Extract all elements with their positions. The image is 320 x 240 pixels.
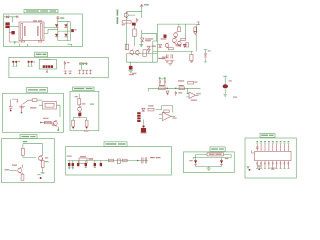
capacitor C10 <box>68 161 70 169</box>
capacitor C24 <box>190 52 193 61</box>
label audio J <box>158 58 165 59</box>
wire bridge rails <box>58 22 71 41</box>
wire VCC drop <box>20 20 72 46</box>
frame E title box <box>20 135 37 139</box>
frame E <box>2 139 55 183</box>
label R26 <box>178 80 184 81</box>
ground G <box>206 168 211 170</box>
capacitor C16 pair <box>142 157 147 163</box>
frame C <box>3 93 64 132</box>
capacitor C18 polarized <box>132 23 136 26</box>
resistor R9 <box>72 120 75 128</box>
frame H <box>245 138 296 178</box>
wire reg out <box>142 30 157 46</box>
wire bottom return <box>9 41 22 44</box>
resistor R18 <box>122 21 132 26</box>
capacitor C15 <box>100 161 102 167</box>
frame B title box <box>35 52 48 57</box>
transistor Q3 <box>53 120 58 129</box>
diode D11 <box>159 44 162 47</box>
electret mic MK1 <box>140 125 146 133</box>
frame D title box <box>73 87 94 91</box>
transistor Q12 <box>177 41 181 47</box>
frame B <box>9 57 108 77</box>
supply mark top left H <box>256 146 259 149</box>
wire bias loop <box>23 144 43 158</box>
diode top right J <box>197 22 200 25</box>
audio bus wire K <box>149 88 201 91</box>
net label green <box>90 104 94 105</box>
ground H bottom left green <box>257 166 261 170</box>
capacitor C8 polarized <box>78 113 81 117</box>
main audio rail wire <box>68 160 149 162</box>
resistor R15 <box>108 159 113 162</box>
resistor R8 vertical <box>78 94 81 105</box>
resistor R24 <box>168 48 173 50</box>
header JP2 pins <box>79 62 87 70</box>
speaker SP1 stub <box>203 50 210 63</box>
battery BT1 <box>223 76 232 97</box>
junction dots K <box>167 88 177 90</box>
inductor L1 box <box>79 156 87 163</box>
diode D9 <box>141 38 144 42</box>
frame G title box <box>210 147 225 152</box>
supply symbol VCC+ <box>56 16 64 20</box>
transistor Q13 <box>165 43 169 48</box>
ground H center red <box>270 168 276 169</box>
diode D7 <box>194 160 197 166</box>
frame F title box <box>104 142 127 147</box>
supply arrow VCC I <box>140 4 149 7</box>
pin1 wire left H <box>252 150 255 153</box>
input net label <box>5 169 17 170</box>
component right rail <box>194 27 197 35</box>
junction dot F <box>137 160 139 162</box>
connector X1 pin2 <box>5 25 9 28</box>
resistor R25 <box>176 44 181 46</box>
IC U2 top pins <box>256 141 289 151</box>
capacitor C13 <box>85 161 87 168</box>
DIP switch SW1 <box>39 59 56 73</box>
resistor R23 <box>186 43 189 47</box>
capacitor C20 <box>125 44 128 50</box>
capacitor C7 <box>19 105 25 114</box>
resistor R16 <box>123 159 128 162</box>
capacitor C14 <box>94 161 96 168</box>
transistor Q6 <box>18 165 23 174</box>
wire G center <box>196 167 222 169</box>
diode pair D10 <box>147 46 150 53</box>
label mid <box>152 46 156 47</box>
diode D3 <box>55 34 58 37</box>
header X2 <box>137 112 140 122</box>
relay K1 <box>39 102 60 118</box>
transistor Q5 <box>38 155 42 161</box>
capacitor C25 <box>175 91 177 96</box>
LED pair LED1 LED2 <box>12 61 20 66</box>
capacitor C1 polarized <box>71 29 76 32</box>
connector X1 pin1 <box>5 22 9 25</box>
trimmer R27 <box>188 81 198 84</box>
capacitor C22 polarized mid <box>129 66 133 70</box>
wire splitter <box>73 116 86 120</box>
caps ground cluster J <box>165 54 174 65</box>
transistor Q9 <box>135 50 139 56</box>
ground symbols E <box>37 168 45 180</box>
frame F <box>66 147 172 176</box>
diode D4 <box>64 34 67 37</box>
diode D2 <box>64 24 67 27</box>
frame H title box <box>260 134 275 138</box>
feedback loop K2 <box>156 106 173 113</box>
label Q6 <box>12 165 17 166</box>
label U1A <box>191 100 197 101</box>
ground H left <box>246 167 250 171</box>
header JP2 contacts <box>78 70 91 74</box>
label audio out <box>150 157 161 158</box>
diode D5 <box>17 16 19 18</box>
label out red <box>162 57 167 60</box>
capacitor C6 <box>9 104 13 112</box>
label top left K <box>132 73 137 74</box>
capacitor C21 <box>143 50 146 57</box>
capacitor C19 <box>133 29 137 46</box>
capacitor C23 polarized <box>161 35 167 40</box>
ground mid bottom <box>128 70 134 75</box>
wire mic drop <box>143 119 145 124</box>
frame C title box <box>27 88 48 93</box>
label C7 <box>30 107 37 108</box>
IC U2 body <box>255 151 291 160</box>
resistor R6 <box>45 121 52 124</box>
diode D15 <box>142 108 145 111</box>
transistor Q10 <box>174 32 178 38</box>
LED pair LED3 LED4 <box>28 61 35 66</box>
wire bracket red <box>12 99 18 102</box>
label F left <box>67 156 72 157</box>
resistor R30 <box>148 105 154 111</box>
resistor R12 <box>41 157 48 167</box>
wire phase red <box>8 28 10 42</box>
op-amp U1B <box>159 112 177 120</box>
wire G loop <box>193 155 231 161</box>
transistor Q7 <box>124 12 128 18</box>
transistor Q8 <box>130 50 134 56</box>
label K1 <box>178 92 182 93</box>
wire top input net <box>4 17 17 23</box>
op-amp U1A <box>186 92 200 98</box>
transistor Q4 <box>78 106 82 112</box>
resistor R11 <box>21 148 24 155</box>
resistor R22 <box>181 38 186 40</box>
wire diagonal base <box>23 100 33 104</box>
ground J right <box>190 61 193 62</box>
ground node Q3 <box>57 129 59 131</box>
transformer TR1 <box>19 20 44 42</box>
diode D12 <box>183 45 186 48</box>
wire K drop <box>188 88 189 93</box>
resistor R28 series <box>159 85 165 90</box>
IC U2 bottom pins <box>256 161 289 169</box>
mic cap pair K <box>159 77 167 85</box>
wire X1 to transformer <box>10 25 19 27</box>
label D8 <box>225 158 228 159</box>
varistor RV1 <box>117 159 120 164</box>
wire mid loop <box>127 44 158 67</box>
node label <box>40 118 49 123</box>
capacitor C5 <box>64 61 70 70</box>
resistor R17 horizontal <box>207 153 224 156</box>
diode D1 <box>55 24 58 27</box>
resistor R29 series <box>179 85 185 90</box>
diode D8 <box>220 160 223 166</box>
frame G <box>184 152 235 173</box>
diode D14 <box>166 91 169 95</box>
capacitor C12 <box>77 161 79 167</box>
frame A (power supply sheet) <box>4 14 83 47</box>
net stub green C <box>10 100 12 104</box>
diode D13 <box>184 44 187 46</box>
frame D <box>70 91 99 130</box>
label LM317 <box>145 38 153 41</box>
wire R8 to Q4 <box>78 105 80 107</box>
resistor R31 <box>164 110 169 112</box>
resistor R13 <box>21 173 24 180</box>
transistor Q11 <box>173 38 177 44</box>
diode D6 <box>52 124 54 126</box>
wire transformer secondary top <box>44 28 58 34</box>
label D7 <box>189 160 192 161</box>
capacitor C11 <box>72 161 74 169</box>
capacitor C17 <box>136 18 138 23</box>
supply label VCC <box>23 141 28 142</box>
fuse F1 <box>6 16 9 19</box>
amp rail wire J <box>153 24 196 62</box>
stray label above F <box>84 130 89 131</box>
regulator sheet label vertical <box>117 10 119 25</box>
frame A title box <box>24 10 58 13</box>
resistor R14 <box>89 158 94 159</box>
ground mid top <box>139 45 143 47</box>
wire collector <box>41 122 53 124</box>
resistor R20 R21 footers <box>64 71 72 74</box>
resistor R5 <box>32 99 42 102</box>
fuse F2 body <box>9 31 15 34</box>
label R8 <box>75 96 86 104</box>
label under battery <box>233 97 237 98</box>
wire VCC to Q7 <box>127 7 142 50</box>
resistor R10 <box>85 120 88 128</box>
resistor R19 <box>178 27 181 32</box>
